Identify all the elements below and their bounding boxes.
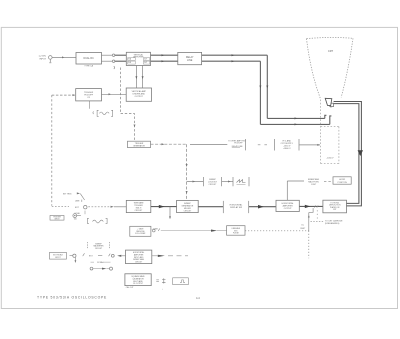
svg-text:INT TRIG: INT TRIG	[63, 194, 72, 196]
svg-text:CIRCUIT: CIRCUIT	[135, 261, 143, 263]
svg-text:-1450 V: -1450 V	[326, 157, 334, 159]
svg-text:CRT: CRT	[328, 49, 334, 53]
svg-text:TYPE CA: TYPE CA	[84, 65, 93, 68]
svg-text:FOLLOWER: FOLLOWER	[135, 233, 146, 235]
svg-text:INPUT: INPUT	[55, 257, 61, 259]
svg-text:PULSE: PULSE	[233, 233, 240, 235]
svg-text:PICKOFF: PICKOFF	[234, 143, 243, 145]
svg-text:OUT: OUT	[144, 62, 147, 64]
svg-text:CAL OUT: CAL OUT	[126, 286, 135, 289]
svg-text:DUAL RC: DUAL RC	[83, 57, 94, 60]
svg-text:CIRCUIT: CIRCUIT	[135, 210, 144, 212]
svg-text:+8600 V: +8600 V	[283, 148, 291, 150]
svg-text:OUTPUT: OUTPUT	[284, 208, 293, 210]
svg-text:5X MAG: 5X MAG	[97, 261, 104, 264]
svg-text:DISPLAY SW: DISPLAY SW	[230, 206, 242, 209]
svg-text:OUT: OUT	[144, 59, 147, 61]
svg-text:CONT: CONT	[311, 184, 317, 186]
svg-text:LINE: LINE	[187, 59, 193, 62]
svg-text:IN B: IN B	[128, 62, 131, 64]
svg-text:(UNBLANKING): (UNBLANKING)	[325, 222, 340, 225]
svg-text:CF OUTPUT: CF OUTPUT	[133, 283, 144, 285]
svg-text:AMPLIFIER: AMPLIFIER	[133, 55, 144, 58]
svg-text:+: +	[162, 288, 163, 290]
svg-text:4-4: 4-4	[196, 296, 200, 300]
svg-text:GENERATOR: GENERATOR	[133, 144, 145, 147]
svg-text:HORIZ: HORIZ	[339, 179, 346, 181]
svg-text:OUTPUT: OUTPUT	[135, 96, 144, 98]
svg-text:HORIZONTAL: HORIZONTAL	[230, 203, 244, 206]
svg-text:TYPE 503/53lA OSCILLOSCOPE: TYPE 503/53lA OSCILLOSCOPE	[37, 296, 107, 300]
svg-text:INPUT: INPUT	[39, 58, 46, 60]
svg-text:POSITION: POSITION	[338, 182, 348, 184]
svg-text:LINE: LINE	[75, 201, 80, 203]
svg-text:CIRCUIT: CIRCUIT	[95, 248, 103, 250]
svg-text:INPUT: INPUT	[54, 219, 59, 221]
svg-text:CIRCUIT: CIRCUIT	[209, 184, 218, 186]
svg-text:CIRCUIT: CIRCUIT	[184, 210, 193, 212]
